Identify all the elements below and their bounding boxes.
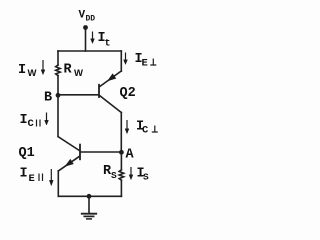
svg-text:W: W xyxy=(28,68,37,79)
resistor RW xyxy=(56,65,61,76)
svg-text:R: R xyxy=(64,63,73,78)
svg-text:W: W xyxy=(74,68,83,79)
current arrow It xyxy=(91,32,95,44)
svg-text:E: E xyxy=(29,173,35,185)
wire Q1 base xyxy=(81,151,122,153)
svg-text:DD: DD xyxy=(86,15,96,24)
svg-text:Q2: Q2 xyxy=(120,86,136,101)
wire left rail bottom xyxy=(57,171,59,196)
label RW xyxy=(64,63,84,80)
transistor Q2 bar xyxy=(98,85,100,97)
svg-text:C: C xyxy=(142,125,149,137)
ground xyxy=(82,196,96,219)
current arrow IC-par xyxy=(45,113,49,126)
current arrow IE-perp xyxy=(124,53,128,65)
wire Q1 collector diagonal xyxy=(58,137,80,151)
svg-text:A: A xyxy=(126,148,135,163)
current arrow IS xyxy=(129,167,133,180)
svg-text:C: C xyxy=(28,118,35,130)
svg-text:B: B xyxy=(44,91,52,106)
current arrow IC-perp xyxy=(125,120,129,134)
wire left rail below B xyxy=(57,95,59,136)
svg-text:t: t xyxy=(105,39,111,50)
wire bottom rail xyxy=(58,195,121,197)
wire left rail upper xyxy=(57,51,59,65)
svg-text:I: I xyxy=(20,167,28,182)
wire RW to B xyxy=(57,76,59,96)
svg-text:V: V xyxy=(79,10,86,22)
resistor RS xyxy=(119,170,124,180)
label IW xyxy=(18,63,37,79)
label IE-par xyxy=(20,167,43,186)
label IE-perp xyxy=(135,52,157,70)
svg-text:I: I xyxy=(18,63,26,78)
current arrow IW xyxy=(41,60,45,75)
label It xyxy=(98,31,111,50)
wire top rail xyxy=(58,50,121,52)
svg-text:I: I xyxy=(20,113,28,128)
label IC-par xyxy=(20,113,41,130)
label VDD xyxy=(79,10,96,24)
node A dot xyxy=(119,150,124,155)
wire Q2 base xyxy=(58,94,98,96)
wire RS bottom xyxy=(120,180,122,196)
wire right rail top xyxy=(120,51,122,71)
node ground junction dot xyxy=(87,194,92,199)
wire Q1 emitter diagonal xyxy=(58,156,79,171)
wire VDD stem xyxy=(85,28,87,52)
transistor Q1 emitter arrow xyxy=(66,160,74,166)
wire right rail mid xyxy=(120,113,122,153)
wire Q2 collector diagonal xyxy=(99,95,121,112)
node VDD dot xyxy=(83,25,88,30)
label IC-perp xyxy=(136,120,158,137)
label RS xyxy=(103,164,117,181)
svg-text:Q1: Q1 xyxy=(19,146,35,161)
svg-text:S: S xyxy=(143,172,149,183)
current arrow IE-par xyxy=(49,169,53,186)
svg-text:S: S xyxy=(111,170,117,181)
transistor Q1 bar xyxy=(79,145,81,160)
transistor Q2 emitter arrow xyxy=(108,74,116,81)
wire Q2 emitter diagonal xyxy=(99,71,121,87)
label IS xyxy=(137,167,150,183)
svg-text:E: E xyxy=(142,58,148,70)
wire RS top xyxy=(120,152,122,170)
node B dot xyxy=(56,93,61,98)
